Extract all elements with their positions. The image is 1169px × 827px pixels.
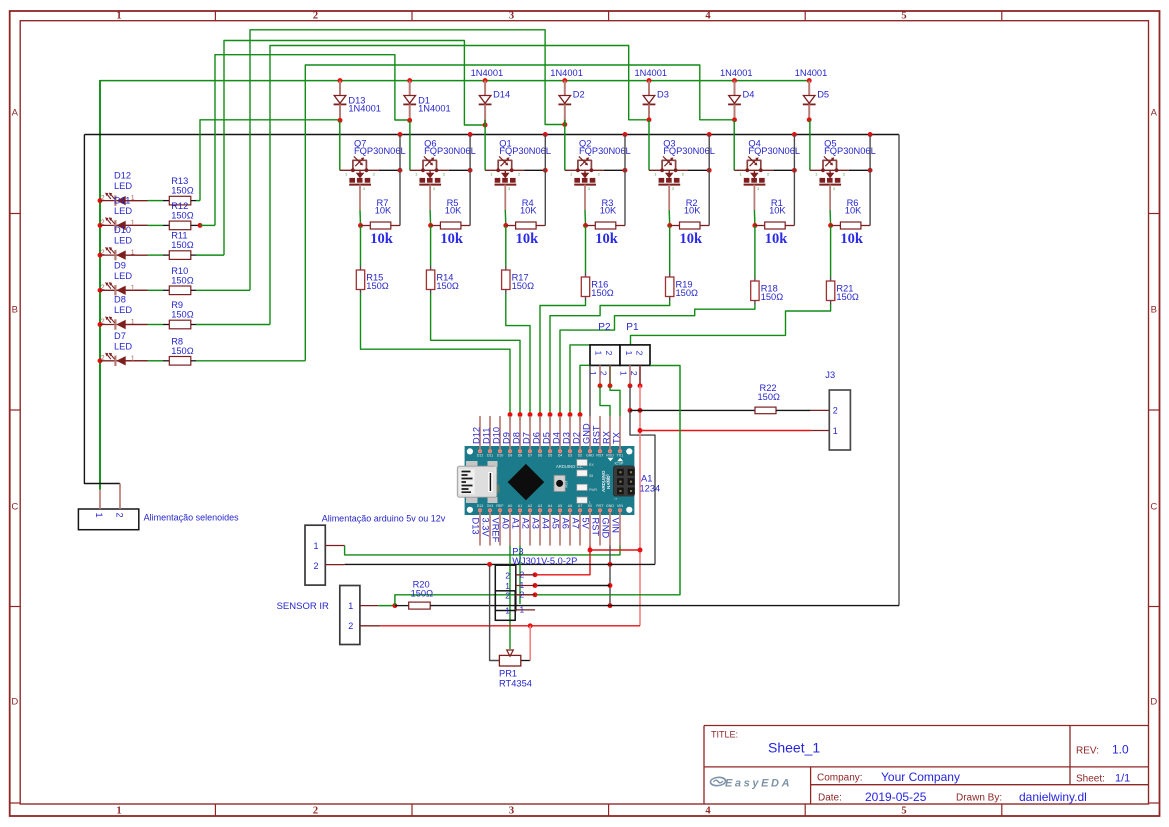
wire P1 pin2 5V net (salmon) — [638, 386, 643, 626]
wire gnd to R22 and J3 pin2 — [630, 409, 755, 411]
svg-text:10k: 10k — [840, 231, 864, 247]
LED D7 — [98, 331, 148, 366]
svg-text:TITLE:: TITLE: — [711, 730, 738, 740]
svg-text:2864: 2864 — [497, 485, 501, 493]
svg-text:Sheet_1: Sheet_1 — [768, 740, 820, 756]
wire D12 to R13 — [148, 200, 170, 202]
svg-text:1.0: 1.0 — [1112, 743, 1129, 757]
svg-text:150Ω: 150Ω — [366, 281, 389, 291]
svg-text:LED: LED — [114, 236, 132, 246]
svg-text:D7: D7 — [528, 454, 533, 458]
svg-text:D10: D10 — [497, 454, 504, 458]
transistor Q3 FQP30N06L — [649, 138, 715, 191]
svg-text:2: 2 — [682, 172, 685, 177]
svg-text:TX1: TX1 — [617, 454, 624, 458]
wire source to R19 — [669, 226, 671, 278]
svg-text:A1: A1 — [641, 474, 652, 484]
wire source to R21 — [830, 226, 832, 282]
svg-text:2: 2 — [833, 406, 838, 416]
svg-text:RX: RX — [602, 431, 612, 444]
svg-text:A2: A2 — [528, 504, 532, 508]
svg-text:5: 5 — [901, 806, 906, 817]
resistor R20 150 ohm — [395, 580, 899, 609]
wire P3 pin1 black — [533, 583, 610, 588]
wire green bus line F (LED anode bus top rail) — [100, 80, 809, 490]
svg-text:1: 1 — [131, 250, 135, 257]
transistor Q7 FQP30N06L — [340, 138, 406, 191]
svg-text:D2: D2 — [573, 90, 585, 100]
svg-text:TX: TX — [612, 432, 622, 444]
svg-text:2: 2 — [314, 561, 319, 571]
resistor R4 10K — [503, 198, 545, 229]
svg-text:2: 2 — [598, 172, 601, 177]
wire R11 output — [191, 254, 224, 256]
svg-text:1: 1 — [131, 285, 135, 292]
wire R19 to pin D5 — [550, 297, 670, 415]
svg-text:2: 2 — [115, 513, 125, 518]
svg-text:3: 3 — [757, 186, 760, 191]
svg-text:D10: D10 — [492, 427, 502, 444]
svg-text:B: B — [12, 305, 18, 316]
diode D3 1N4001 — [635, 68, 669, 122]
svg-text:3: 3 — [508, 186, 511, 191]
svg-text:2: 2 — [767, 172, 770, 177]
svg-text:2: 2 — [505, 570, 510, 580]
wire black left bus to selenoid connector pin1 — [84, 135, 120, 484]
svg-text:D: D — [11, 697, 18, 708]
svg-text:D5: D5 — [817, 90, 829, 100]
connector Alimentacao arduino — [305, 514, 446, 586]
svg-text:5V: 5V — [588, 504, 593, 508]
svg-text:S8: S8 — [589, 474, 593, 478]
svg-text:FQP30N06L: FQP30N06L — [663, 146, 715, 156]
wire P2 pin2 to TX — [610, 386, 620, 416]
connector SENSOR IR — [277, 586, 395, 645]
svg-text:D11: D11 — [482, 428, 492, 444]
svg-text:150Ω: 150Ω — [171, 310, 194, 320]
svg-text:10K: 10K — [375, 205, 392, 215]
wire GND bottom pin vertical — [608, 546, 613, 609]
svg-text:LED: LED — [114, 341, 132, 351]
svg-text:RT4354: RT4354 — [499, 678, 532, 688]
svg-text:Alimentação selenoides: Alimentação selenoides — [144, 513, 240, 523]
resistor R21 150 ohm vertical — [826, 281, 859, 302]
wire black drain bus top — [84, 134, 899, 136]
svg-text:LED: LED — [114, 206, 132, 216]
svg-text:10k: 10k — [370, 231, 394, 247]
svg-text:150Ω: 150Ω — [761, 292, 784, 302]
resistor R18 150 ohm vertical — [751, 281, 784, 302]
svg-text:2: 2 — [520, 590, 525, 600]
svg-text:PWR: PWR — [589, 488, 597, 492]
svg-text:D6: D6 — [538, 454, 543, 458]
svg-text:D2: D2 — [578, 454, 583, 458]
svg-text:REF: REF — [496, 504, 504, 508]
svg-text:2: 2 — [505, 591, 510, 601]
svg-text:150Ω: 150Ω — [411, 589, 434, 599]
wire gate feed Q4 — [733, 120, 735, 171]
resistor R14 150 ohm vertical — [426, 270, 459, 291]
svg-text:1: 1 — [520, 580, 525, 590]
svg-text:10K: 10K — [684, 205, 701, 215]
svg-text:1N4001: 1N4001 — [471, 68, 504, 78]
svg-text:D9: D9 — [508, 454, 513, 458]
svg-text:1: 1 — [505, 606, 510, 616]
svg-text:150Ω: 150Ω — [591, 288, 614, 298]
svg-text:150Ω: 150Ω — [436, 281, 459, 291]
svg-text:1: 1 — [415, 172, 418, 177]
wire source pin Q6 — [429, 185, 432, 226]
svg-text:2: 2 — [518, 172, 521, 177]
svg-text:GND: GND — [582, 423, 592, 444]
svg-text:2: 2 — [101, 195, 105, 202]
svg-text:150Ω: 150Ω — [836, 292, 859, 302]
svg-text:A6: A6 — [568, 504, 572, 508]
net label 10k Q6 — [440, 231, 464, 247]
svg-text:1: 1 — [116, 11, 121, 22]
svg-text:A: A — [1151, 108, 1158, 119]
net label 10k Q4 — [765, 231, 789, 247]
svg-text:10K: 10K — [600, 205, 617, 215]
svg-text:1: 1 — [345, 172, 348, 177]
wire R18 to pin D4 — [560, 301, 755, 415]
resistor R17 150 ohm vertical — [502, 270, 535, 291]
svg-text:1: 1 — [348, 601, 353, 611]
svg-text:3: 3 — [509, 11, 514, 22]
svg-text:C: C — [11, 502, 18, 513]
svg-text:REV:: REV: — [1076, 746, 1099, 757]
svg-text:RX: RX — [589, 463, 594, 467]
connector P2 — [588, 322, 620, 388]
svg-text:D7: D7 — [522, 432, 532, 444]
svg-text:5: 5 — [901, 11, 906, 22]
svg-text:A5: A5 — [551, 518, 561, 529]
svg-text:2: 2 — [313, 806, 318, 817]
svg-text:P3: P3 — [512, 546, 523, 556]
svg-text:1N4001: 1N4001 — [795, 68, 828, 78]
svg-text:3: 3 — [363, 186, 366, 191]
diode D5 1N4001 — [795, 68, 829, 122]
wire gate feed Q5 — [809, 120, 811, 171]
resistor R1 10K — [752, 198, 794, 229]
wire sensor pin1 node — [392, 366, 680, 609]
svg-text:150Ω: 150Ω — [171, 240, 194, 250]
resistor R10 150 ohm — [169, 266, 193, 295]
svg-text:RST: RST — [592, 425, 602, 444]
wire P2 corner to pin D2 — [580, 365, 590, 414]
svg-text:D14: D14 — [493, 90, 510, 100]
svg-text:Alimentação arduino 5v ou 12v: Alimentação arduino 5v ou 12v — [322, 514, 446, 524]
svg-text:150Ω: 150Ω — [171, 275, 194, 285]
net label 10k Q2 — [595, 231, 619, 247]
svg-text:A6: A6 — [561, 518, 571, 529]
wire R16 to pin D6 — [540, 297, 586, 415]
svg-text:A4: A4 — [548, 504, 552, 508]
LED D8 — [98, 295, 148, 330]
LED D11 — [98, 195, 148, 230]
net label 10k Q5 — [840, 231, 864, 247]
diode D4 1N4001 — [720, 68, 754, 122]
svg-text:1: 1 — [624, 351, 634, 356]
svg-text:10K: 10K — [520, 205, 537, 215]
svg-text:A: A — [12, 108, 19, 119]
svg-text:D13: D13 — [471, 518, 481, 535]
svg-text:10k: 10k — [680, 231, 704, 247]
svg-text:D12: D12 — [472, 427, 482, 444]
svg-text:2: 2 — [101, 355, 105, 362]
wire R12 output — [191, 223, 215, 228]
svg-text:10k: 10k — [516, 231, 540, 247]
resistor R3 10K — [583, 198, 625, 229]
svg-text:2: 2 — [604, 351, 614, 356]
wire net LED5 to D3 gate — [270, 46, 649, 325]
svg-text:1: 1 — [654, 172, 657, 177]
net label 10k Q1 — [516, 231, 540, 247]
svg-text:3: 3 — [672, 186, 675, 191]
wire source pin Q7 — [359, 185, 362, 226]
EasyEDA logo — [710, 777, 793, 789]
wire D7 to R8 — [148, 360, 170, 362]
wire net LED6 to D4 gate — [305, 65, 734, 361]
svg-text:1N4001: 1N4001 — [720, 68, 753, 78]
svg-text:WJ301V-5.0-2P: WJ301V-5.0-2P — [512, 556, 577, 566]
svg-text:D13: D13 — [477, 504, 484, 508]
arduino bottom pin stubs and labels — [471, 512, 621, 546]
svg-text:J3: J3 — [825, 370, 835, 380]
svg-text:A3: A3 — [538, 504, 542, 508]
wire drain Q4 — [792, 132, 797, 225]
svg-text:D12: D12 — [477, 454, 484, 458]
resistor R7 10K — [358, 198, 400, 229]
svg-text:A4: A4 — [541, 518, 551, 529]
diode D13 1N4001 — [334, 78, 381, 123]
svg-text:USB: USB — [493, 465, 498, 474]
svg-text:2: 2 — [348, 621, 353, 631]
wire D11 to R12 — [148, 224, 170, 226]
svg-text:1: 1 — [619, 371, 629, 376]
svg-text:3.3V: 3.3V — [481, 518, 491, 538]
svg-text:1: 1 — [131, 195, 135, 202]
svg-text:3: 3 — [588, 186, 591, 191]
svg-text:1234: 1234 — [640, 484, 661, 494]
net label 10k Q7 — [370, 231, 394, 247]
svg-text:1: 1 — [116, 806, 121, 817]
wire R21 to connector P1 — [631, 301, 831, 345]
wire source to R15 — [360, 226, 362, 271]
wire drain Q1 — [543, 132, 548, 225]
svg-text:2: 2 — [520, 569, 525, 579]
resistor R8 150 ohm — [169, 336, 193, 365]
wire J3 pin1 red — [640, 430, 829, 432]
svg-text:3: 3 — [433, 186, 436, 191]
svg-text:A2: A2 — [521, 518, 531, 529]
wire net LED3 to D14 gate — [224, 41, 485, 256]
wire ground black net power pin2 — [345, 562, 655, 567]
svg-text:1: 1 — [815, 172, 818, 177]
svg-text:150Ω: 150Ω — [171, 186, 194, 196]
connector P3 WJ301V-5.0-2P — [495, 546, 577, 610]
svg-text:FQP30N06L: FQP30N06L — [354, 146, 406, 156]
svg-text:VREF: VREF — [491, 518, 501, 543]
resistor R13 150 ohm — [169, 176, 193, 205]
svg-text:D8: D8 — [114, 295, 126, 305]
svg-text:A1: A1 — [518, 504, 522, 508]
svg-text:1: 1 — [520, 605, 525, 615]
wire R8 output — [191, 360, 305, 362]
svg-text:Company:: Company: — [817, 773, 863, 784]
wire 5V red net — [533, 546, 640, 578]
svg-text:D11: D11 — [114, 195, 130, 205]
svg-text:GND: GND — [601, 518, 611, 539]
wire net LED1 to D13 gate — [200, 120, 340, 201]
svg-text:2019-05-25: 2019-05-25 — [865, 790, 927, 804]
svg-text:FQP30N06L: FQP30N06L — [424, 146, 476, 156]
svg-text:Your Company: Your Company — [881, 770, 960, 784]
wire source pin Q5 — [829, 185, 832, 226]
svg-text:D4: D4 — [743, 90, 755, 100]
svg-text:1: 1 — [594, 351, 604, 356]
LED D12 — [98, 171, 148, 206]
LED D9 — [98, 260, 148, 295]
svg-text:RST: RST — [591, 518, 601, 537]
wire source to R17 — [505, 226, 507, 271]
svg-text:FQP30N06L: FQP30N06L — [748, 146, 800, 156]
title block — [704, 726, 1149, 805]
wire gate feed Q1 — [484, 120, 486, 171]
svg-text:10K: 10K — [445, 205, 462, 215]
svg-text:150Ω: 150Ω — [171, 210, 194, 220]
svg-text:FQP30N06L: FQP30N06L — [824, 146, 876, 156]
wire source pin Q1 — [504, 185, 507, 226]
svg-text:1N4001: 1N4001 — [418, 104, 451, 114]
resistor R19 150 ohm vertical — [666, 277, 699, 298]
potentiometer PR1 RT4354 — [499, 650, 532, 688]
wire drain Q7 — [398, 132, 403, 225]
svg-text:1: 1 — [570, 172, 573, 177]
svg-text:1: 1 — [739, 172, 742, 177]
svg-text:D11: D11 — [487, 454, 493, 458]
svg-text:GND: GND — [586, 454, 594, 458]
svg-text:Drawn By:: Drawn By: — [956, 793, 1002, 804]
arduino nano A1 board — [457, 446, 634, 515]
svg-text:1: 1 — [614, 498, 618, 500]
svg-text:EasyEDA: EasyEDA — [725, 778, 792, 790]
resistor R5 10K — [428, 198, 470, 229]
resistor R11 150 ohm — [169, 231, 193, 260]
wire R10 output — [191, 289, 250, 291]
wire gate feed Q6 — [409, 120, 411, 170]
wire R14 to pin D8 — [431, 290, 520, 415]
junction dots arduino digital pins — [508, 412, 583, 420]
transistor Q4 FQP30N06L — [734, 138, 800, 191]
svg-text:1: 1 — [490, 172, 493, 177]
part label A1 — [640, 474, 661, 494]
svg-text:D: D — [1150, 697, 1157, 708]
svg-text:1: 1 — [131, 319, 135, 326]
svg-text:2: 2 — [443, 172, 446, 177]
svg-text:A3: A3 — [531, 518, 541, 529]
wire drain Q3 — [707, 132, 712, 225]
svg-text:RST: RST — [596, 504, 604, 508]
svg-text:Sheet:: Sheet: — [1076, 774, 1105, 785]
wire gate feed Q3 — [648, 120, 650, 171]
wire GND top pin to P2 box — [589, 365, 591, 416]
resistor R9 150 ohm — [169, 300, 193, 329]
svg-text:D4: D4 — [558, 454, 563, 458]
svg-text:10k: 10k — [595, 231, 619, 247]
svg-text:150Ω: 150Ω — [758, 392, 781, 402]
svg-text:1: 1 — [833, 426, 838, 436]
svg-text:10k: 10k — [765, 231, 789, 247]
svg-text:2: 2 — [373, 172, 376, 177]
svg-text:1N4001: 1N4001 — [348, 104, 381, 114]
wire P2 corner to pin D3 — [570, 345, 590, 415]
svg-text:2: 2 — [101, 319, 105, 326]
wire source pin Q2 — [584, 185, 587, 226]
svg-text:3: 3 — [833, 186, 836, 191]
arduino top pin stubs and labels — [472, 416, 622, 450]
wire drain Q6 — [468, 132, 473, 225]
svg-text:VIN: VIN — [617, 504, 623, 508]
svg-text:D8: D8 — [512, 432, 522, 444]
svg-text:2: 2 — [635, 351, 645, 356]
wire R17 to pin D7 — [506, 290, 530, 415]
svg-text:1N4001: 1N4001 — [550, 68, 583, 78]
resistor R6 10K — [828, 198, 870, 229]
svg-text:SENSOR IR: SENSOR IR — [277, 601, 329, 612]
svg-text:A0: A0 — [508, 504, 512, 508]
svg-text:2: 2 — [101, 220, 105, 227]
wire R13 output — [191, 200, 200, 202]
svg-text:5V: 5V — [581, 518, 591, 530]
diode D1 1N4001 — [403, 78, 450, 123]
svg-text:2: 2 — [101, 285, 105, 292]
svg-text:B: B — [1151, 305, 1157, 316]
svg-text:P2: P2 — [598, 322, 611, 333]
svg-text:150Ω: 150Ω — [676, 288, 699, 298]
svg-text:V3-0: V3-0 — [605, 474, 610, 484]
svg-text:2: 2 — [843, 172, 846, 177]
wire net LED2 to D1 gate — [215, 55, 410, 226]
transistor Q2 FQP30N06L — [565, 138, 631, 191]
svg-text:ICSP: ICSP — [615, 462, 624, 466]
svg-text:1: 1 — [505, 581, 510, 591]
svg-text:1: 1 — [131, 355, 135, 362]
transistor Q1 FQP30N06L — [485, 138, 551, 191]
wire P2 pin1 to RX — [600, 386, 610, 416]
wire source to R16 — [585, 226, 587, 278]
svg-text:A5: A5 — [558, 504, 562, 508]
connector J3 — [825, 370, 850, 450]
wire gate feed Q7 — [339, 120, 341, 170]
svg-text:3: 3 — [509, 806, 514, 817]
svg-text:C: C — [1150, 502, 1157, 513]
svg-text:D9: D9 — [502, 432, 512, 444]
svg-text:1/1: 1/1 — [1115, 773, 1130, 785]
net label 10k Q3 — [680, 231, 704, 247]
wire source to R18 — [754, 226, 756, 282]
diode D2 1N4001 — [550, 68, 584, 127]
wire VIN green to power connector pin1 — [345, 546, 620, 555]
resistor R22 150 ohm — [755, 383, 829, 414]
svg-text:LED: LED — [114, 305, 132, 315]
svg-text:1: 1 — [94, 513, 104, 518]
connector Alimentacao selenoides — [78, 484, 239, 530]
wire D9 to R10 — [148, 289, 170, 291]
svg-text:D10: D10 — [114, 225, 131, 235]
svg-text:2: 2 — [313, 11, 318, 22]
svg-text:RST: RST — [565, 480, 569, 488]
